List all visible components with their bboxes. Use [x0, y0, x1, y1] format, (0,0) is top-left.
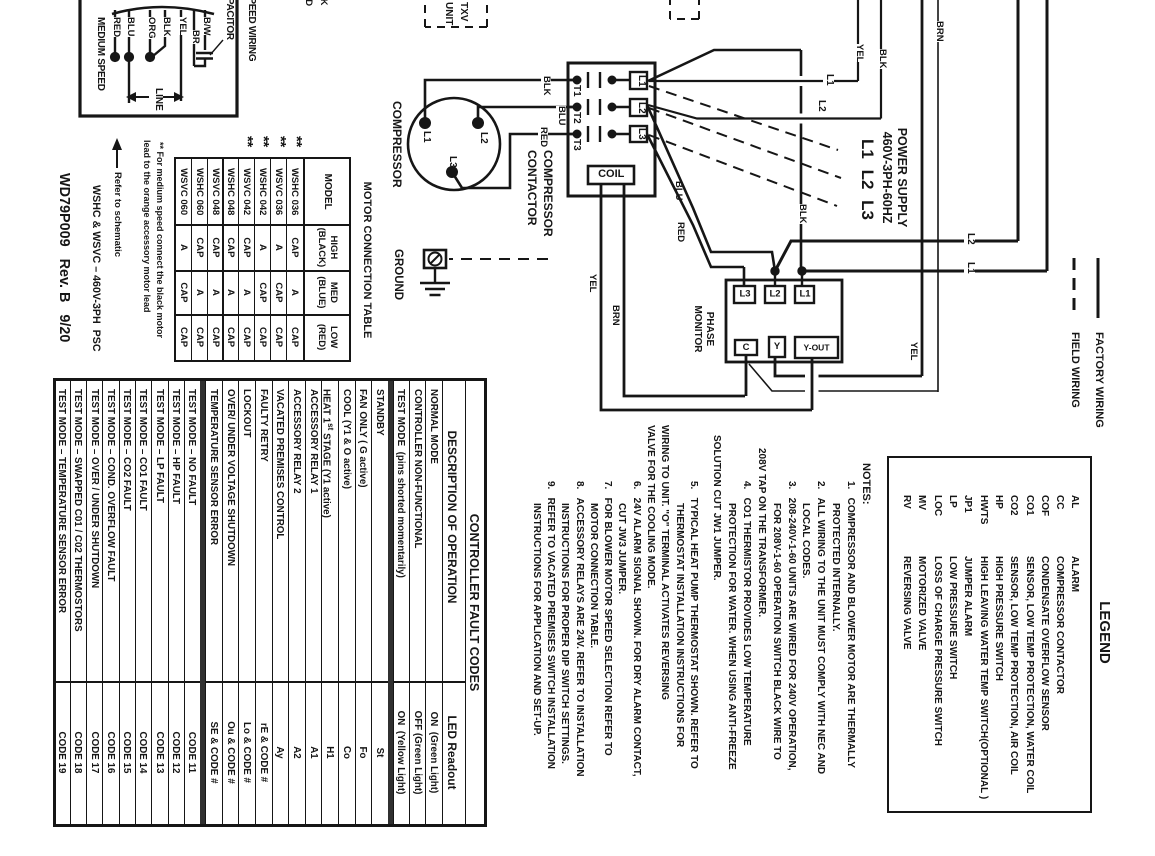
label BLK on factory wire	[877, 49, 887, 69]
refer to schematic arrow	[110, 136, 124, 176]
label COMPRESSOR	[390, 101, 403, 188]
label COMPRESSOR CONTACTOR	[524, 150, 555, 237]
note line 3	[815, 481, 826, 774]
wire BRN phase C to top edge	[749, 0, 938, 392]
label BRN coil wire	[610, 305, 620, 326]
legend entry AL	[1069, 495, 1080, 508]
legend entry CO2	[1008, 495, 1019, 516]
label FIELD WIRING	[1068, 332, 1080, 408]
note line 10	[711, 435, 722, 581]
label BLU wire compressor	[556, 106, 566, 126]
junction dot phase L2	[771, 267, 779, 275]
wire crossing gap at Y-OUT run	[805, 369, 819, 398]
label PHASE MONITOR	[691, 300, 715, 358]
label RED wire compressor	[538, 127, 548, 147]
label phase monitor C rotated	[737, 343, 755, 353]
label phase monitor L1 rotated	[796, 290, 815, 300]
contactor pole T3 contacts	[568, 126, 630, 142]
label YEL wire A	[908, 342, 918, 360]
label ORG	[146, 17, 156, 39]
label compressor L3	[447, 156, 458, 168]
blower motor body arc	[112, 7, 214, 14]
label T2	[571, 112, 582, 124]
note line 7	[755, 448, 766, 617]
stub phase monitor L1	[801, 271, 803, 286]
wire BLK contactor L1 to phase monitor L1	[648, 50, 801, 271]
capacitor pointer arrow	[210, 40, 223, 55]
label B/W	[201, 17, 211, 35]
junction dot RED	[110, 52, 119, 61]
label BR	[190, 30, 200, 44]
phase monitor terminal L2	[765, 286, 785, 303]
legend entry CC	[1054, 495, 1065, 509]
legend box	[887, 456, 1092, 813]
wire YEL L1 factory (contactor L1 up to edge)	[649, 0, 858, 81]
label drawing number WD79P009	[56, 173, 72, 342]
capacitor C (run capacitor plates)	[196, 53, 213, 59]
wire YEL coil lead to phase Y-OUT	[601, 184, 812, 410]
note line 20	[559, 503, 570, 764]
LINE double arrow	[126, 92, 184, 102]
wire RED contactor L3 to phase monitor L3	[647, 134, 744, 286]
footnote stars row 4	[239, 136, 255, 147]
label TXV	[458, 2, 469, 21]
contactor coil box	[588, 166, 634, 184]
label L1 on factory wire	[824, 74, 835, 86]
phase monitor box	[726, 280, 842, 362]
compressor terminal L3 dot	[447, 167, 458, 178]
legend entry CO1	[1023, 495, 1034, 516]
label compressor L1	[421, 131, 432, 143]
blower motor speed wiring detail box	[80, 0, 237, 116]
label BLK wire compressor	[541, 76, 551, 96]
wire RED compressor L3 to contactor T3	[452, 134, 577, 188]
dashed field wire L3	[649, 135, 837, 206]
wire BRN coil lead to phase C	[624, 184, 746, 396]
label POWER SUPPLY	[895, 105, 908, 250]
label BRN wire B	[934, 21, 944, 42]
wire BLK compressor L1 to contactor T1	[425, 80, 577, 123]
note line 16	[616, 503, 627, 594]
label CAPACITOR	[224, 0, 235, 40]
wire BLU (fan line lead)	[128, 10, 130, 103]
footnote stars row 2	[272, 136, 288, 147]
label phase monitor Y rotated	[768, 342, 786, 352]
label BLU phase wire	[673, 181, 683, 201]
legend entry HP	[993, 495, 1004, 509]
junction dot BLU	[124, 52, 133, 61]
phase monitor terminal Y-OUT	[795, 337, 838, 358]
dashed ground bond wire	[449, 258, 548, 260]
field wiring legend dashed line	[1068, 256, 1080, 326]
note line 17	[602, 481, 613, 756]
wire B/W to capacitor	[194, 10, 205, 66]
note line 14	[645, 425, 656, 589]
note line 4	[800, 503, 811, 578]
motor connection table title	[360, 157, 372, 363]
label UNIT	[443, 2, 454, 25]
wire BLK (fan)	[153, 10, 165, 56]
label L1 field	[965, 262, 976, 274]
controller fault codes table	[53, 378, 487, 827]
legend entry COF	[1038, 495, 1049, 516]
wire BLK L2 factory (contactor L2 up to edge)	[648, 0, 881, 119]
note line 9	[726, 503, 737, 770]
label BLU fan	[125, 17, 135, 37]
label phase monitor L3 rotated	[736, 290, 755, 300]
dashed field wire L1	[649, 86, 838, 150]
phase monitor terminal C	[735, 340, 757, 355]
label phase monitor L2 rotated	[766, 290, 785, 300]
label speed wiring title	[246, 0, 257, 61]
label NOTES heading	[859, 463, 871, 505]
label LINE	[153, 88, 164, 111]
label contactor L2	[636, 102, 647, 114]
phase monitor terminal L1	[795, 286, 814, 303]
cut label BLK at edge	[318, 0, 328, 6]
legend entry LP	[947, 495, 958, 508]
compressor motor circle	[408, 98, 500, 190]
label MEDIUM SPEED	[95, 17, 106, 91]
note line 18	[587, 503, 598, 648]
label YEL fan	[177, 17, 187, 35]
dashed accessory box	[670, 0, 699, 19]
legend entry RV	[901, 495, 912, 509]
note line 8	[741, 481, 752, 746]
wire crossing gaps on BLK run	[796, 76, 807, 124]
label YEL coil wire	[587, 274, 597, 292]
label L2 field	[965, 233, 976, 245]
label FACTORY WIRING	[1092, 332, 1104, 428]
contactor pole T1 contacts	[568, 72, 630, 88]
stub phase monitor L2	[774, 271, 776, 286]
legend entry MV	[916, 495, 927, 510]
ground earth symbol	[420, 268, 450, 295]
note line 6	[770, 503, 781, 760]
note line 1	[845, 481, 856, 768]
note line 21	[545, 481, 556, 769]
compressor contactor CC box	[568, 63, 655, 196]
wire BLU contactor L2 to phase monitor L2	[647, 105, 775, 271]
label 460V-3PH-60HZ	[880, 105, 893, 250]
wire BR	[193, 10, 195, 66]
motor connection table	[174, 157, 351, 362]
note line 13	[659, 425, 670, 700]
label contactor L1	[636, 75, 647, 87]
wire L2 field line from phase monitor	[775, 0, 1018, 271]
contactor terminal L2 box	[630, 99, 647, 116]
contactor terminal L1 box	[630, 72, 647, 89]
label GROUND	[392, 249, 404, 300]
contactor pole T2 contacts	[568, 99, 630, 115]
note line 19	[573, 481, 584, 777]
label T3	[571, 139, 582, 151]
wire ORG	[149, 10, 151, 57]
label WSHC WSVC model	[89, 185, 101, 352]
compressor terminal L1 dot	[420, 118, 431, 129]
phase monitor terminal Y	[769, 337, 785, 357]
label contactor L3	[636, 128, 647, 140]
note line 22	[530, 503, 541, 736]
label power supply L1 L2 L3	[858, 112, 876, 247]
label RED fan	[111, 17, 121, 37]
ground screw symbol	[424, 250, 446, 268]
cut label RED at edge	[303, 0, 313, 6]
note line 11	[688, 481, 699, 769]
compressor terminal L2 dot	[473, 118, 484, 129]
label RED phase wire	[675, 222, 685, 242]
label L2 on factory wire	[816, 100, 827, 112]
label BLK fan	[161, 17, 171, 37]
legend entry LOC	[931, 495, 942, 516]
footnote stars row 3	[256, 136, 272, 147]
phase monitor terminal L3	[734, 286, 755, 303]
note line 2	[830, 503, 841, 632]
legend entry JP1	[962, 495, 973, 513]
factory wiring legend line	[1092, 256, 1104, 326]
label T1	[571, 85, 582, 97]
contactor terminal L3 box	[630, 126, 647, 142]
label refer to schematic	[112, 172, 122, 257]
footnote stars row 1	[288, 136, 304, 147]
legend entry HWTS	[977, 495, 988, 524]
label phase monitor Y-OUT rotated	[800, 344, 834, 353]
label compressor L2	[478, 132, 489, 144]
note line 15	[630, 481, 641, 777]
label COIL rotated	[597, 169, 625, 181]
dashed TXV unit box	[425, 0, 487, 27]
footnote medium speed line 2	[142, 140, 151, 313]
wire YEL (fan line lead)	[180, 10, 182, 101]
wire BLU compressor L2 to contactor T2	[478, 107, 577, 123]
footnote medium speed line 1	[155, 142, 164, 338]
label LEGEND	[1096, 456, 1112, 809]
note line 12	[673, 503, 684, 747]
dashed field wire L2	[649, 108, 841, 178]
label YEL on factory wire	[854, 44, 864, 62]
junction dot ORG/BLK	[145, 52, 154, 61]
wire L1 field line from phase monitor	[802, 0, 1047, 271]
wire YEL phase Y to top edge	[775, 0, 922, 376]
note line 5	[785, 481, 796, 771]
wire RED (fan)	[114, 10, 116, 57]
label BLK on phase L1 wire	[797, 204, 807, 224]
junction dot phase L1	[798, 267, 806, 275]
